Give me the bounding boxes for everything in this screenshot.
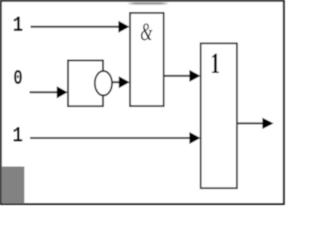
node arrowhead into U3 upper	[189, 70, 200, 82]
OR gate U3	[201, 43, 237, 188]
svg-text:1: 1	[12, 123, 23, 148]
wire input 1 bottom	[30, 137, 190, 139]
svg-text:&: &	[140, 17, 153, 46]
node arrowhead into U1	[118, 21, 129, 33]
svg-text:1: 1	[13, 12, 24, 37]
wire input 0	[30, 91, 58, 93]
inverter bubble	[95, 71, 112, 95]
gray square bottom-left	[2, 167, 24, 204]
wire AND to OR	[164, 75, 190, 77]
node arrowhead into U3 lower	[189, 132, 200, 144]
wire input 1 top	[31, 26, 120, 28]
svg-text:1: 1	[211, 48, 220, 80]
frame border	[1, 1, 284, 204]
node output arrowhead	[262, 118, 273, 129]
wire output	[237, 122, 263, 124]
node arrowhead into U1 lower	[119, 76, 130, 88]
gray mark top	[128, 2, 169, 4]
inverter box U2	[68, 60, 103, 106]
node arrowhead into inverter	[57, 86, 68, 98]
wire inverter to AND	[112, 81, 120, 83]
AND gate U1	[130, 13, 164, 106]
svg-text:0: 0	[13, 67, 22, 91]
